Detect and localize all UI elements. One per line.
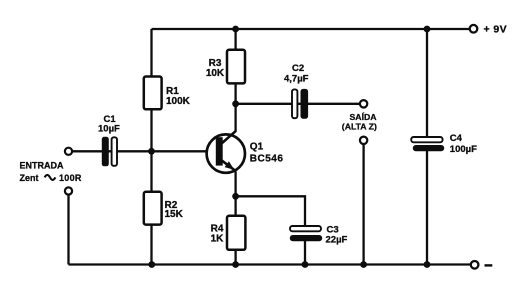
wire input lower terminal to ground [67,195,69,265]
svg-text:100R: 100R [59,173,82,183]
wire base input horizontal [72,150,217,152]
wire C3 to ground rail [304,241,306,265]
wire C4 bottom [426,151,428,265]
junction collector node [232,100,239,107]
junction ground C3 [302,261,309,268]
svg-text:ENTRADA: ENTRADA [20,160,64,170]
terminal output lower [360,137,367,144]
svg-text:100µF: 100µF [450,144,477,155]
label minus [485,264,493,266]
wire R3 collector vertical [234,29,236,132]
svg-text:Zent: Zent [20,173,39,183]
svg-text:100K: 100K [166,96,191,107]
svg-text:1K: 1K [211,233,225,244]
junction top rail C4 branch [424,26,431,33]
svg-text:4,7µF: 4,7µF [284,73,309,84]
resistor R2 [144,192,184,225]
terminal output upper [360,100,367,107]
terminal +9V [470,25,478,33]
svg-text:10µF: 10µF [98,123,120,134]
capacitor C2 [284,63,309,119]
svg-text:C2: C2 [292,63,304,74]
wire bottom ground rail [69,263,471,265]
svg-text:C4: C4 [450,133,463,144]
svg-text:BC546: BC546 [250,153,284,164]
svg-text:(ALTA Z): (ALTA Z) [342,122,377,132]
capacitor C3 [290,224,348,245]
wire collector to output [236,103,360,105]
terminal input upper [65,148,72,155]
resistor R4 [211,216,246,250]
wire top supply rail [152,28,470,30]
svg-text:10K: 10K [206,68,225,79]
svg-text:22µF: 22µF [326,235,348,246]
junction ground C4 [424,261,431,268]
capacitor C1 [98,114,120,166]
junction ground output [360,261,367,268]
capacitor C4 [411,133,477,155]
svg-text:Q1: Q1 [250,141,264,152]
junction ground R4 [232,261,239,268]
terminal input lower [65,187,72,194]
transistor Q1 [207,131,284,173]
junction base bias node [148,148,155,155]
junction ground R2 [148,261,155,268]
wire C4 top [426,29,428,137]
svg-text:+ 9V: + 9V [484,23,508,35]
svg-text:15K: 15K [165,209,184,220]
label Zent 100R [20,173,82,183]
svg-text:SAÍDA: SAÍDA [350,112,378,122]
resistor R3 [206,50,245,84]
terminal minus [471,261,479,269]
wire output lower terminal to ground [362,144,364,265]
wire left bias vertical [150,29,152,265]
resistor R1 [144,77,191,110]
wire emitter vertical [234,172,236,265]
junction top rail R3 branch [232,26,239,33]
wire emitter to C3 [236,196,305,226]
junction emitter node [232,193,239,200]
